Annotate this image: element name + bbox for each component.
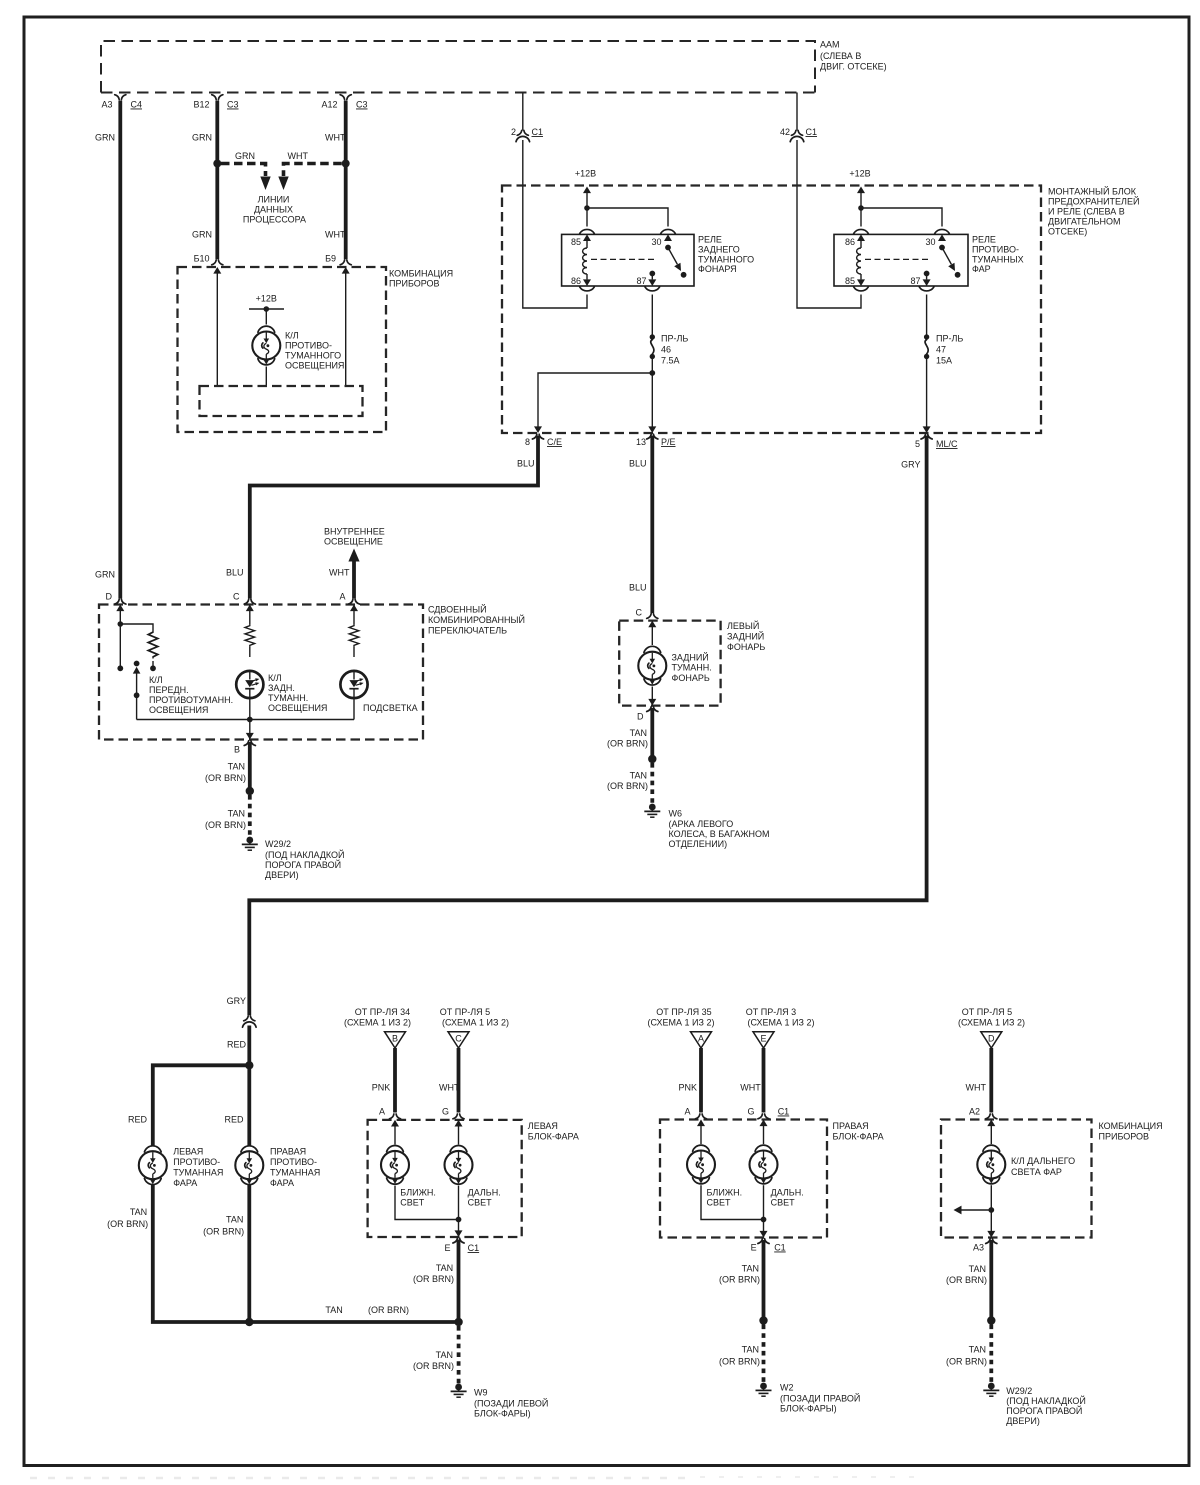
svg-text:G: G	[442, 1107, 449, 1117]
svg-text:E: E	[760, 1034, 766, 1044]
right headlamp pin A	[684, 1107, 706, 1127]
svg-text:C: C	[455, 1034, 462, 1044]
interior lighting label	[324, 527, 385, 547]
left rear lamp label	[727, 620, 765, 652]
wire to high beam indicator	[990, 1121, 992, 1145]
svg-text:КОМБИНАЦИЯ: КОМБИНАЦИЯ	[389, 269, 453, 279]
svg-text:A: A	[339, 592, 345, 602]
svg-text:ПРОТИВО-: ПРОТИВО-	[972, 245, 1019, 255]
pin B9 entry	[325, 254, 351, 274]
arrow down data line GRN	[260, 177, 270, 191]
svg-text:СВЕТ: СВЕТ	[707, 1198, 732, 1208]
right headlamp box (dashed)	[660, 1120, 827, 1238]
svg-text:КОЛЕСА, В БАГАЖНОМ: КОЛЕСА, В БАГАЖНОМ	[669, 829, 770, 839]
svg-text:ОТДЕЛЕНИИ): ОТДЕЛЕНИИ)	[669, 839, 728, 849]
svg-text:C1: C1	[468, 1243, 480, 1253]
svg-text:ЗАДНЕГО: ЗАДНЕГО	[698, 245, 740, 255]
svg-text:WHT: WHT	[288, 151, 309, 161]
high beam indicator label	[1011, 1156, 1075, 1177]
svg-text:(ПОЗАДИ ПРАВОЙ: (ПОЗАДИ ПРАВОЙ	[780, 1393, 860, 1404]
svg-text:БЛИЖН.: БЛИЖН.	[400, 1188, 436, 1198]
resistor front fog	[148, 631, 158, 659]
wire TAN right fog to bus	[203, 1184, 249, 1322]
wire to high beam bulb	[458, 1121, 460, 1145]
dashed data line WHT	[284, 151, 342, 176]
svg-text:GRN: GRN	[95, 570, 115, 580]
lamp label	[285, 331, 344, 371]
svg-text:86: 86	[845, 237, 855, 247]
right headlamp pin G	[747, 1107, 789, 1127]
wire BLU pin 13 to rear lamp	[629, 436, 652, 614]
svg-text:C/E: C/E	[547, 437, 562, 447]
ground W29/2 right	[983, 1383, 999, 1397]
wire C1-42 into fuse box	[797, 140, 861, 308]
svg-text:2: 2	[511, 127, 516, 137]
relay1 coil	[583, 241, 587, 279]
svg-text:(OR BRN): (OR BRN)	[607, 739, 648, 749]
svg-text:85: 85	[845, 276, 855, 286]
svg-text:ЛЕВАЯ: ЛЕВАЯ	[528, 1121, 558, 1131]
svg-text:B: B	[234, 745, 240, 755]
triangle connector E from fuse 3	[746, 1007, 815, 1048]
svg-text:КОМБИНАЦИЯ: КОМБИНАЦИЯ	[1099, 1121, 1163, 1131]
svg-text:ЛЕВЫЙ: ЛЕВЫЙ	[727, 620, 759, 631]
svg-text:ПРИБОРОВ: ПРИБОРОВ	[1099, 1132, 1150, 1142]
relay2 coil	[857, 241, 861, 279]
cluster pin A2	[969, 1107, 997, 1127]
wire TAN from pin B	[205, 742, 250, 791]
AAM module box (dashed)	[101, 41, 815, 93]
indicator return and stub arrow	[954, 1185, 995, 1214]
switch pin C	[233, 592, 255, 612]
svg-text:ОТ ПР-ЛЯ 35: ОТ ПР-ЛЯ 35	[656, 1007, 711, 1017]
dashed TAN to ground W2	[719, 1325, 764, 1383]
relay 2 front fog relay box	[834, 234, 968, 286]
wire TAN rear lamp	[607, 708, 652, 759]
svg-text:(OR BRN): (OR BRN)	[413, 1361, 454, 1371]
svg-text:W2: W2	[780, 1383, 794, 1393]
relay2 pin 86	[845, 229, 868, 247]
high beam bulb right	[750, 1145, 778, 1184]
svg-text:(СХЕМА 1 ИЗ 2): (СХЕМА 1 ИЗ 2)	[958, 1018, 1025, 1028]
svg-text:85: 85	[571, 237, 581, 247]
low beam right return	[701, 1185, 764, 1219]
svg-text:(ПОД НАКЛАДКОЙ: (ПОД НАКЛАДКОЙ	[1006, 1395, 1086, 1406]
dashed TAN to ground W29/2	[946, 1325, 991, 1383]
svg-text:ДВЕРИ): ДВЕРИ)	[1006, 1416, 1040, 1426]
svg-text:(ПОД НАКЛАДКОЙ: (ПОД НАКЛАДКОЙ	[265, 849, 345, 860]
inner dashed box in cluster	[200, 386, 363, 416]
LED illumination label	[363, 703, 418, 713]
svg-text:ПОДСВЕТКА: ПОДСВЕТКА	[363, 703, 418, 713]
svg-text:C1: C1	[806, 127, 818, 137]
wire RED to right fog lamp	[224, 1065, 249, 1146]
right headlamp pin E exit	[751, 1220, 786, 1253]
instrument cluster box bottom right (dashed)	[941, 1120, 1092, 1238]
wire from AAM to connector C1 pin 2	[522, 93, 524, 131]
svg-text:G: G	[747, 1107, 754, 1117]
svg-text:TAN: TAN	[228, 762, 245, 772]
svg-text:C: C	[636, 608, 643, 618]
TAN ground bus wire	[249, 1305, 458, 1322]
svg-text:СВЕТ: СВЕТ	[468, 1198, 493, 1208]
svg-text:ПРИБОРОВ: ПРИБОРОВ	[389, 279, 440, 289]
svg-text:E: E	[444, 1243, 450, 1253]
svg-text:A: A	[379, 1107, 385, 1117]
wire TAN headlamp to bus	[413, 1240, 459, 1323]
relay 1 label	[698, 235, 754, 275]
svg-text:(OR BRN): (OR BRN)	[205, 820, 246, 830]
svg-text:ПЕРЕДН.: ПЕРЕДН.	[149, 685, 189, 695]
wire GRN A3 to switch pin D	[95, 101, 120, 599]
left headlamp pin E exit	[444, 1220, 479, 1254]
svg-text:К/Л ДАЛЬНЕГО: К/Л ДАЛЬНЕГО	[1011, 1156, 1075, 1166]
ground W29/2 right label	[1006, 1386, 1086, 1426]
left headlamp pin A	[379, 1107, 401, 1127]
svg-text:C4: C4	[131, 100, 143, 110]
svg-text:(OR BRN): (OR BRN)	[413, 1274, 454, 1284]
inline connector C1 pin 42	[780, 127, 817, 142]
relay1 pin 85	[571, 229, 594, 247]
high beam bulb left	[445, 1146, 473, 1185]
splice right headlamp ground	[759, 1316, 767, 1324]
connector C4 pin A3	[101, 95, 142, 110]
svg-text:(OR BRN): (OR BRN)	[368, 1305, 409, 1315]
wire junction to pin 13	[651, 373, 653, 427]
left headlamp pin G	[442, 1107, 464, 1127]
svg-text:BLU: BLU	[226, 568, 244, 578]
ground W2	[756, 1383, 772, 1397]
svg-text:ПР-ЛЬ: ПР-ЛЬ	[936, 334, 963, 344]
svg-text:ПРОТИВО-: ПРОТИВО-	[285, 341, 332, 351]
svg-text:ОТСЕКЕ): ОТСЕКЕ)	[1048, 227, 1087, 237]
svg-text:BLU: BLU	[629, 583, 647, 593]
svg-text:Б9: Б9	[325, 254, 336, 264]
svg-text:GRN: GRN	[192, 133, 212, 143]
svg-text:WHT: WHT	[325, 133, 346, 143]
svg-text:К/Л: К/Л	[285, 331, 299, 341]
fuse 46 7.5A	[650, 334, 689, 366]
junction on GRN wire	[213, 160, 221, 168]
wire TAN right headlamp	[719, 1240, 764, 1321]
wire TAN cluster	[946, 1240, 991, 1321]
svg-text:СДВОЕННЫЙ: СДВОЕННЫЙ	[428, 604, 487, 615]
svg-text:WHT: WHT	[966, 1083, 987, 1093]
svg-text:15А: 15А	[936, 356, 952, 366]
low beam return wire	[395, 1186, 459, 1220]
svg-text:(OR BRN): (OR BRN)	[719, 1275, 760, 1285]
splice fog bus	[245, 1318, 253, 1326]
inline connector GRY/RED	[227, 996, 256, 1050]
wire RED branch to left fog lamp	[128, 1065, 249, 1146]
wire GRN B12 to cluster pin B10	[192, 101, 217, 260]
svg-text:GRN: GRN	[192, 230, 212, 240]
indicator lamp rear fog (cluster)	[252, 326, 280, 365]
svg-text:ДАЛЬН.: ДАЛЬН.	[771, 1188, 804, 1198]
wire PNK to left headlamp	[372, 1048, 395, 1113]
svg-text:E: E	[751, 1243, 757, 1253]
svg-text:ПР-ЛЬ: ПР-ЛЬ	[661, 334, 688, 344]
fog feed junction	[245, 1061, 253, 1069]
inline connector C1 pin 2	[511, 127, 543, 142]
wire to high beam right	[763, 1121, 765, 1145]
connector C3 pin A12	[321, 95, 367, 110]
wire illumination LED down	[353, 698, 355, 719]
wire GRY pin 5 to fog connector	[249, 436, 926, 1016]
svg-text:ПРАВАЯ: ПРАВАЯ	[270, 1147, 306, 1157]
svg-text:ТУМАННОГО: ТУМАННОГО	[698, 255, 754, 265]
wire BLU pin 8 to switch pin C	[226, 436, 538, 599]
high beam label	[468, 1188, 501, 1208]
svg-text:ДВИГАТЕЛЬНОМ: ДВИГАТЕЛЬНОМ	[1048, 217, 1120, 227]
wire C1-2 into fuse box	[523, 140, 587, 308]
svg-text:БЛОК-ФАРА: БЛОК-ФАРА	[833, 1132, 884, 1142]
svg-text:C1: C1	[532, 127, 544, 137]
LED illumination	[340, 671, 367, 698]
svg-text:И РЕЛЕ (СЛЕВА В: И РЕЛЕ (СЛЕВА В	[1048, 207, 1125, 217]
ground W29/2 left label	[265, 839, 345, 880]
pin B10 entry	[194, 254, 223, 274]
svg-text:TAN: TAN	[228, 809, 245, 819]
label front fog lamps switch	[149, 675, 233, 715]
wire B10 inside cluster	[216, 268, 218, 386]
svg-text:ФАР: ФАР	[972, 264, 991, 274]
svg-text:ТУМАННОГО: ТУМАННОГО	[285, 351, 341, 361]
svg-text:ОТ ПР-ЛЯ 5: ОТ ПР-ЛЯ 5	[440, 1007, 490, 1017]
svg-text:ОСВЕЩЕНИЯ: ОСВЕЩЕНИЯ	[285, 361, 344, 371]
svg-text:GRY: GRY	[227, 996, 246, 1006]
svg-text:ТУМАННЫХ: ТУМАННЫХ	[972, 255, 1024, 265]
svg-text:P/E: P/E	[661, 437, 676, 447]
svg-text:GRY: GRY	[901, 460, 920, 470]
scan artifact row	[30, 1477, 920, 1478]
svg-text:СВЕТА ФАР: СВЕТА ФАР	[1011, 1167, 1062, 1177]
fuse 47 15A	[924, 334, 963, 366]
svg-text:TAN: TAN	[325, 1305, 342, 1315]
svg-text:TAN: TAN	[130, 1207, 147, 1217]
svg-text:42: 42	[780, 127, 790, 137]
connector C3 pin B12	[193, 95, 238, 110]
svg-text:(OR BRN): (OR BRN)	[946, 1275, 987, 1285]
svg-text:D: D	[637, 712, 644, 722]
svg-text:ТУМАННАЯ: ТУМАННАЯ	[270, 1168, 320, 1178]
fuse box label	[1048, 186, 1139, 237]
svg-text:C3: C3	[356, 100, 368, 110]
svg-text:RED: RED	[227, 1040, 247, 1050]
svg-text:ДАННЫХ: ДАННЫХ	[254, 205, 293, 215]
svg-text:C3: C3	[227, 100, 239, 110]
svg-text:ДВЕРИ): ДВЕРИ)	[265, 870, 299, 880]
relay2 pin 85	[845, 276, 868, 291]
svg-text:ПЕРЕКЛЮЧАТЕЛЬ: ПЕРЕКЛЮЧАТЕЛЬ	[428, 626, 507, 636]
switch arm front fog	[133, 661, 141, 720]
LED rear fog label	[268, 673, 327, 713]
svg-text:W29/2: W29/2	[265, 839, 291, 849]
pin 13 P/E exit	[636, 426, 676, 447]
wire LED to bus	[249, 698, 251, 719]
svg-text:W9: W9	[474, 1388, 488, 1398]
svg-text:RED: RED	[128, 1115, 148, 1125]
svg-text:TAN: TAN	[742, 1345, 759, 1355]
splice cluster ground	[987, 1316, 995, 1324]
triangle connector B from fuse 34	[344, 1007, 411, 1048]
wire lamp to inner box	[265, 367, 267, 387]
svg-text:W6: W6	[669, 809, 683, 819]
svg-text:ОСВЕЩЕНИЕ: ОСВЕЩЕНИЕ	[324, 537, 383, 547]
relay 1 rear fog relay box	[562, 234, 694, 286]
relay1 internal dashed link	[591, 258, 656, 260]
svg-text:TAN: TAN	[630, 771, 647, 781]
svg-text:СВЕТ: СВЕТ	[771, 1198, 796, 1208]
svg-text:(АРКА ЛЕВОГО: (АРКА ЛЕВОГО	[669, 819, 734, 829]
svg-text:BLU: BLU	[517, 459, 535, 469]
wire TAN left fog to bus	[107, 1184, 249, 1322]
splice bus to headlamp ground	[454, 1318, 462, 1326]
svg-text:D: D	[988, 1034, 995, 1044]
high beam right return	[761, 1185, 767, 1222]
dashed TAN to ground W6	[607, 763, 652, 804]
resistor output contact	[150, 661, 156, 671]
wire WHT to right headlamp	[740, 1048, 763, 1113]
D branch wire and junction	[117, 606, 123, 672]
low beam label	[400, 1188, 436, 1208]
svg-text:46: 46	[661, 345, 671, 355]
svg-text:(ПОЗАДИ ЛЕВОЙ: (ПОЗАДИ ЛЕВОЙ	[474, 1398, 548, 1409]
svg-text:БЛИЖН.: БЛИЖН.	[707, 1188, 743, 1198]
ground W6	[644, 804, 660, 818]
svg-text:ПОРОГА ПРАВОЙ: ПОРОГА ПРАВОЙ	[265, 859, 341, 870]
ground W9	[451, 1384, 467, 1398]
svg-text:ФОНАРЬ: ФОНАРЬ	[672, 673, 710, 683]
svg-text:A: A	[698, 1034, 704, 1044]
wire to rear fog bulb	[651, 622, 653, 645]
left rear lamp box (dashed)	[619, 621, 720, 706]
rear fog bulb label	[672, 652, 712, 684]
svg-text:A2: A2	[969, 1107, 980, 1117]
svg-text:К/Л: К/Л	[268, 673, 282, 683]
triangle connector D from fuse 5	[958, 1007, 1025, 1048]
svg-text:ФАРА: ФАРА	[173, 1178, 197, 1188]
svg-text:TAN: TAN	[742, 1264, 759, 1274]
relay 2 label	[972, 235, 1024, 275]
svg-text:B12: B12	[193, 100, 209, 110]
wire RED to fog junction	[247, 1026, 251, 1066]
interior lighting arrow WHT	[329, 549, 360, 599]
dashed TAN to ground	[205, 795, 250, 837]
svg-text:+12В: +12В	[575, 169, 596, 179]
svg-text:A3: A3	[973, 1243, 984, 1253]
+12V feed in cluster	[249, 294, 284, 325]
svg-text:GRN: GRN	[235, 151, 255, 161]
dashed data line GRN	[221, 151, 266, 176]
+12V feed relay 1	[575, 169, 596, 227]
svg-text:СВЕТ: СВЕТ	[400, 1198, 425, 1208]
relay1 switch blade	[665, 245, 686, 278]
left headlamp box (dashed)	[368, 1120, 522, 1237]
ground W29/2 left	[242, 837, 258, 851]
svg-text:(OR BRN): (OR BRN)	[607, 781, 648, 791]
+12V feed relay 2	[849, 169, 870, 227]
wire PNK to right headlamp	[679, 1048, 702, 1113]
svg-text:(OR BRN): (OR BRN)	[946, 1357, 987, 1367]
right fog lamp label	[270, 1147, 320, 1189]
svg-text:WHT: WHT	[329, 568, 350, 578]
high beam return wire	[456, 1186, 462, 1223]
svg-text:C1: C1	[778, 1107, 790, 1117]
svg-text:ПРЕДОХРАНИТЕЛЕЙ: ПРЕДОХРАНИТЕЛЕЙ	[1048, 196, 1139, 207]
svg-text:БЛОК-ФАРЫ): БЛОК-ФАРЫ)	[780, 1404, 837, 1414]
ground W6 label	[669, 809, 770, 850]
svg-text:30: 30	[925, 237, 935, 247]
svg-text:ЗАДНИЙ: ЗАДНИЙ	[672, 652, 709, 663]
pin 8 C/E exit	[525, 426, 562, 447]
wire to low beam bulb	[394, 1121, 396, 1145]
junction on WHT wire	[342, 160, 350, 168]
svg-text:ПРОЦЕССОРА: ПРОЦЕССОРА	[243, 215, 306, 225]
svg-text:WHT: WHT	[439, 1083, 460, 1093]
combination switch box (dashed)	[99, 605, 423, 740]
svg-text:ОТ ПР-ЛЯ 34: ОТ ПР-ЛЯ 34	[355, 1007, 410, 1017]
svg-text:(OR BRN): (OR BRN)	[203, 1227, 244, 1237]
svg-text:ПОРОГА ПРАВОЙ: ПОРОГА ПРАВОЙ	[1006, 1405, 1082, 1416]
svg-text:AAM: AAM	[820, 40, 840, 50]
svg-text:B: B	[392, 1034, 398, 1044]
branch to pin 8	[538, 373, 652, 427]
svg-text:47: 47	[936, 345, 946, 355]
switch pin D	[106, 592, 126, 612]
svg-text:87: 87	[636, 276, 646, 286]
splice on TAN wire	[246, 787, 254, 795]
switch pin B exit	[234, 720, 255, 755]
svg-text:РЕЛЕ: РЕЛЕ	[972, 235, 996, 245]
svg-text:ПРАВАЯ: ПРАВАЯ	[833, 1121, 869, 1131]
low beam bulb left	[381, 1146, 409, 1185]
fuse and relay box (dashed)	[502, 186, 1041, 434]
C branch resistor	[245, 606, 255, 658]
svg-text:(СХЕМА 1 ИЗ 2): (СХЕМА 1 ИЗ 2)	[344, 1018, 411, 1028]
splice on rear TAN	[648, 755, 656, 763]
high beam indicator bulb	[977, 1145, 1005, 1184]
pin 5 ML/C exit	[915, 426, 958, 449]
svg-text:A3: A3	[101, 100, 112, 110]
internal bus wire of switch	[137, 717, 354, 723]
wire WHT A12 to cluster pin B9	[325, 101, 346, 260]
svg-text:МОНТАЖНЫЙ БЛОК: МОНТАЖНЫЙ БЛОК	[1048, 186, 1137, 197]
svg-text:БЛОК-ФАРА: БЛОК-ФАРА	[528, 1132, 579, 1142]
label processor data lines	[243, 195, 306, 225]
svg-text:+12В: +12В	[849, 169, 870, 179]
cluster bottom label	[1099, 1121, 1163, 1142]
svg-text:TAN: TAN	[969, 1264, 986, 1274]
left fog lamp label	[173, 1147, 223, 1189]
D branch resistor feed	[120, 624, 153, 631]
right headlamp label	[833, 1121, 884, 1142]
svg-text:ML/C: ML/C	[936, 439, 958, 449]
svg-text:РЕЛЕ: РЕЛЕ	[698, 235, 722, 245]
relay1 pin 87	[636, 271, 659, 291]
svg-text:ЗАДН.: ЗАДН.	[268, 683, 295, 693]
svg-text:86: 86	[571, 276, 581, 286]
svg-text:ТУМАННАЯ: ТУМАННАЯ	[173, 1168, 223, 1178]
LED rear fog indicator	[236, 671, 263, 698]
svg-text:TAN: TAN	[630, 728, 647, 738]
arrow down data line WHT	[278, 177, 288, 191]
instrument cluster box (dashed)	[178, 267, 387, 432]
AAM label	[820, 40, 887, 72]
svg-text:W29/2: W29/2	[1006, 1386, 1032, 1396]
wire relay2 87 to fuse 47	[926, 295, 928, 336]
wire B9 inside cluster	[345, 268, 347, 386]
